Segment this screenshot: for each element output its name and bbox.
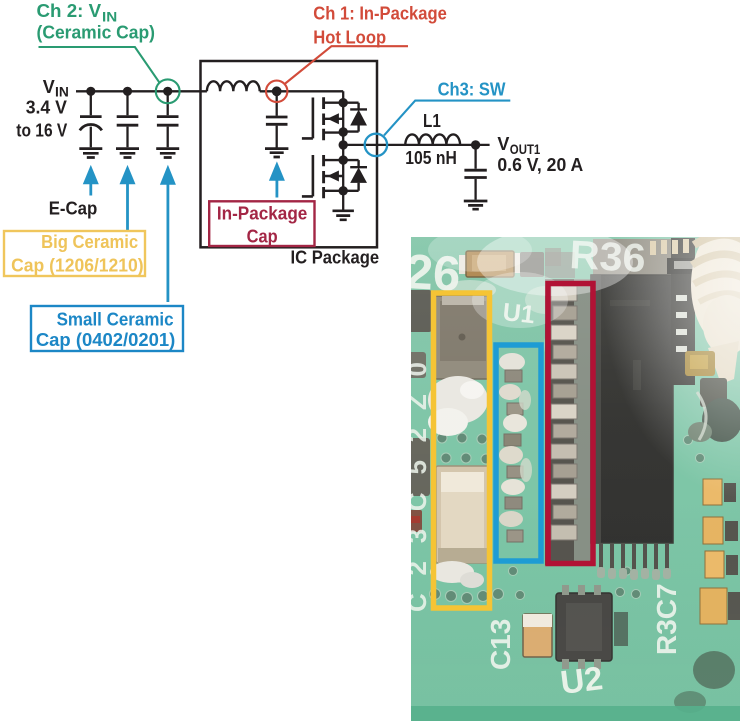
svg-text:(Ceramic Cap): (Ceramic Cap): [37, 22, 156, 42]
svg-text:Small Ceramic: Small Ceramic: [57, 310, 174, 330]
svg-text:L1: L1: [423, 111, 441, 131]
svg-text:Cap (1206/1210): Cap (1206/1210): [11, 256, 144, 276]
svg-text:In-Package: In-Package: [217, 204, 308, 224]
svg-text:3.4 V: 3.4 V: [26, 98, 67, 118]
svg-text:Cap: Cap: [247, 226, 278, 246]
svg-text:0.6 V, 20 A: 0.6 V, 20 A: [497, 155, 583, 175]
svg-text:Big Ceramic: Big Ceramic: [41, 232, 138, 252]
svg-text:Ch3: SW: Ch3: SW: [438, 80, 506, 100]
svg-text:E-Cap: E-Cap: [49, 199, 98, 219]
svg-text:Hot Loop: Hot Loop: [313, 28, 386, 48]
svg-text:V: V: [497, 134, 509, 154]
svg-text:Cap (0402/0201): Cap (0402/0201): [36, 330, 176, 350]
svg-text:IC Package: IC Package: [291, 248, 380, 268]
svg-text:to 16 V: to 16 V: [16, 121, 67, 141]
svg-text:V: V: [43, 77, 55, 97]
svg-text:Ch 2: V: Ch 2: V: [37, 1, 102, 21]
svg-text:Ch 1: In-Package: Ch 1: In-Package: [313, 4, 447, 24]
svg-text:105 nH: 105 nH: [405, 148, 457, 168]
